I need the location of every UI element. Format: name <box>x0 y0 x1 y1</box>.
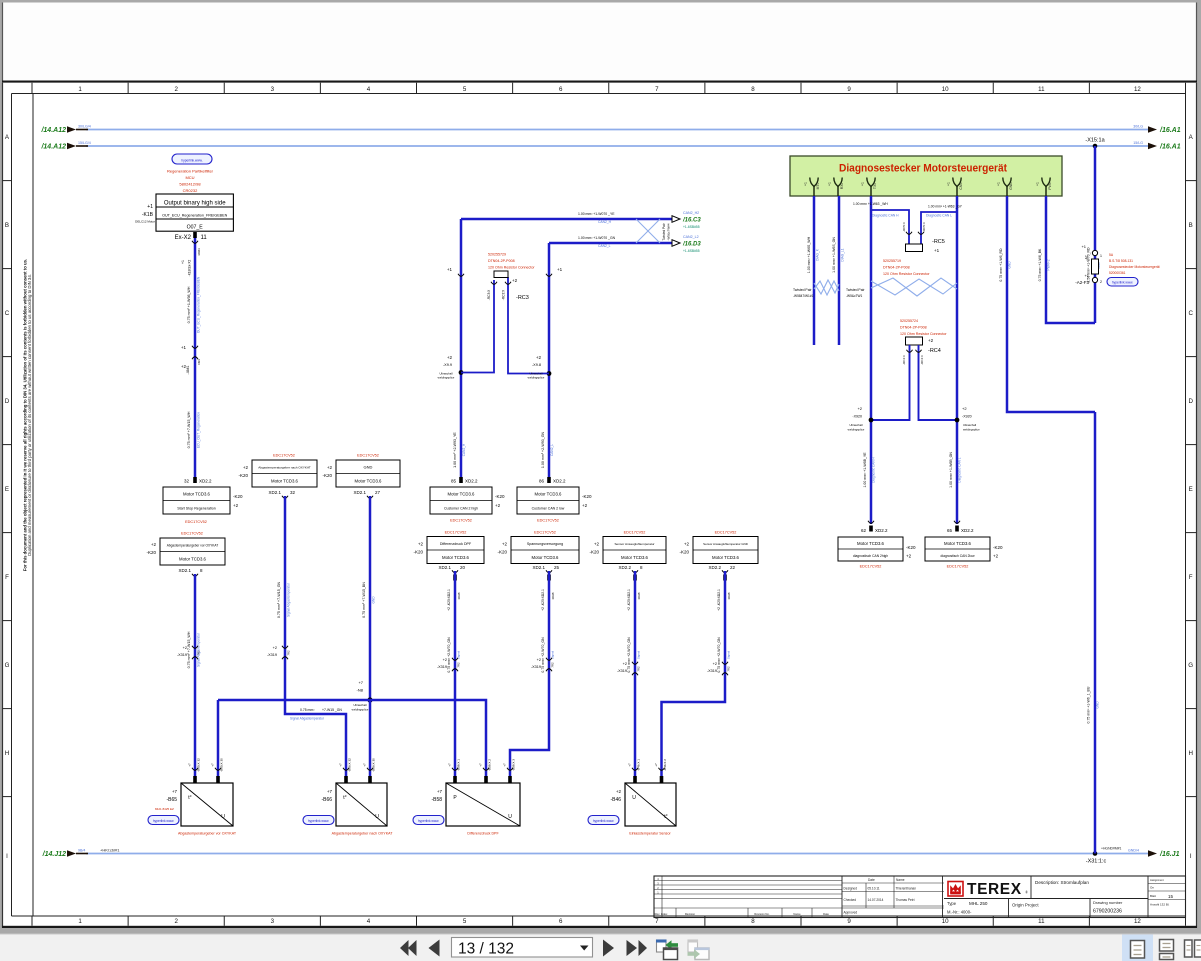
svg-text:+2: +2 <box>594 542 600 547</box>
svg-text:-B66:X 32: -B66:X 32 <box>348 758 352 772</box>
svg-text:-X9.9: -X9.9 <box>443 363 452 367</box>
svg-text:11: 11 <box>1038 86 1045 93</box>
svg-text:Drawing number: Drawing number <box>1093 900 1123 905</box>
svg-text:+1: +1 <box>181 260 185 264</box>
svg-text:hyperlink.www.: hyperlink.www. <box>181 158 202 162</box>
svg-text:-B58:X 1: -B58:X 1 <box>457 759 461 771</box>
svg-text:05.10.11: 05.10.11 <box>868 887 880 891</box>
svg-text:1.00 mm² +1-W63 _GY: 1.00 mm² +1-W63 _GY <box>928 205 963 209</box>
svg-text:Einlasstemperatur Sensor: Einlasstemperatur Sensor <box>629 832 671 836</box>
svg-text:DIAG_L1: DIAG_L1 <box>841 248 845 261</box>
svg-text:9: 9 <box>847 918 851 925</box>
svg-text:Duplication and measurement or: Duplication and measurement or disclosur… <box>27 274 32 556</box>
svg-text:+7: +7 <box>448 763 452 767</box>
svg-text:-XM1: -XM1 <box>186 365 190 374</box>
svg-text:15/LG: 15/LG <box>1133 141 1143 145</box>
svg-text:-X319: -X319 <box>617 669 627 673</box>
svg-text:5: 5 <box>463 86 467 93</box>
svg-text:+1: +1 <box>947 182 951 186</box>
svg-text:B: B <box>1189 222 1193 229</box>
svg-text:+7: +7 <box>479 763 483 767</box>
svg-text:CAN2_H2: CAN2_H2 <box>683 211 699 215</box>
svg-text:Motor TCD3.6: Motor TCD3.6 <box>442 555 470 560</box>
svg-text:-K20: -K20 <box>238 473 248 478</box>
svg-text:weldingsplice: weldingsplice <box>438 376 455 380</box>
svg-text:85: 85 <box>451 479 457 484</box>
svg-text:Name: Name <box>896 878 905 882</box>
svg-text:-X15:1a: -X15:1a <box>1085 138 1105 144</box>
svg-text:-K20: -K20 <box>679 550 689 555</box>
svg-text:-B46:X 2: -B46:X 2 <box>663 759 667 771</box>
svg-text:OUT_ECU_Regeneration_FREIGEBEN: OUT_ECU_Regeneration_FREIGEBEN <box>162 213 228 217</box>
svg-text:1.00 mm² +1-W6S_GN: 1.00 mm² +1-W6S_GN <box>832 237 836 273</box>
svg-text:+2 -K20:XD2.1: +2 -K20:XD2.1 <box>447 589 451 611</box>
svg-text:XD2.1: XD2.1 <box>438 565 451 570</box>
svg-text:t°: t° <box>188 795 191 801</box>
svg-text:-X319: -X319 <box>267 653 277 657</box>
svg-text:Customer CAN 2 low: Customer CAN 2 low <box>532 506 565 510</box>
svg-text:+7: +7 <box>211 763 215 767</box>
svg-text:DTN04-2P-P008: DTN04-2P-P008 <box>883 266 910 270</box>
svg-text:62: 62 <box>861 528 867 533</box>
svg-text:3R#B: 3R#B <box>457 592 461 599</box>
svg-text:MCU: MCU <box>185 175 194 180</box>
svg-text:Designed: Designed <box>844 887 858 891</box>
svg-text:I: I <box>6 853 8 860</box>
svg-text:Motor TCD3.6: Motor TCD3.6 <box>448 492 476 497</box>
svg-text:-B46: -B46 <box>610 797 621 803</box>
svg-text:C: C <box>1188 310 1193 317</box>
svg-text:Signal: Signal <box>551 650 555 659</box>
svg-text:7: 7 <box>655 86 659 93</box>
svg-text:Twisted Pair: Twisted Pair <box>846 288 865 292</box>
svg-text:Diagnostic CAN H: Diagnostic CAN H <box>872 456 876 482</box>
svg-text:+2: +2 <box>495 503 501 508</box>
svg-text:120 Ohm Resistor Connector: 120 Ohm Resistor Connector <box>900 332 947 336</box>
svg-text:-RC4: -RC4 <box>928 348 941 354</box>
svg-text:+1: +1 <box>1084 273 1089 278</box>
svg-text:Thierenthanan: Thierenthanan <box>896 887 917 891</box>
svg-text:32: 32 <box>184 479 190 484</box>
svg-text:+7: +7 <box>503 763 507 767</box>
svg-text:0.75 mm² +2-W70_GN: 0.75 mm² +2-W70_GN <box>717 637 721 673</box>
svg-text:Ex-X2: Ex-X2 <box>175 235 192 241</box>
svg-text:EDC17CV52: EDC17CV52 <box>273 454 295 458</box>
svg-text:-K1B: -K1B <box>142 212 154 218</box>
svg-text:EDC17CV52: EDC17CV52 <box>947 565 969 569</box>
svg-text:Diagnosestecker Motorsteuerger: Diagnosestecker Motorsteuergerät <box>1109 265 1160 269</box>
svg-text:D: D <box>1188 398 1193 405</box>
svg-text:weldingsplice: weldingsplice <box>963 428 980 432</box>
svg-text:EDC17CV52: EDC17CV52 <box>624 531 646 535</box>
svg-text:t°: t° <box>664 814 667 820</box>
svg-text:+1: +1 <box>557 267 563 272</box>
svg-text:10: 10 <box>942 918 949 925</box>
svg-text:XD2.2: XD2.2 <box>553 479 566 484</box>
svg-text:-X920: -X920 <box>852 415 862 419</box>
svg-text:0.75 mm² +7-W15_BN: 0.75 mm² +7-W15_BN <box>362 582 366 618</box>
svg-text:+7: +7 <box>339 763 343 767</box>
svg-text:+2: +2 <box>181 364 187 369</box>
svg-text:7R2: 7R2 <box>457 662 461 668</box>
svg-text:520255719: 520255719 <box>883 259 901 263</box>
svg-text:-K20: -K20 <box>993 545 1003 550</box>
svg-text:Ultraschall: Ultraschall <box>353 703 366 707</box>
svg-text:EDC17CV52: EDC17CV52 <box>860 565 882 569</box>
svg-text:O07_E: O07_E <box>187 224 204 230</box>
svg-text:120 Ohm Resistor Connector: 120 Ohm Resistor Connector <box>488 266 535 270</box>
svg-text:/16.C3: /16.C3 <box>682 218 701 224</box>
svg-text:Motor TCD3.6: Motor TCD3.6 <box>183 492 211 497</box>
svg-text:EDC17CV52: EDC17CV52 <box>715 531 737 535</box>
svg-text:+2: +2 <box>928 338 934 343</box>
svg-text:Regeneration Partikelfilter: Regeneration Partikelfilter <box>167 169 214 174</box>
svg-text:XD2.1: XD2.1 <box>532 565 545 570</box>
svg-text:-W5&cTW1: -W5&cTW1 <box>846 294 863 298</box>
svg-text:diagnostisch CAN 2low: diagnostisch CAN 2low <box>941 554 976 558</box>
svg-text:GND: GND <box>1009 182 1013 190</box>
svg-text:DELC12 Motor: DELC12 Motor <box>135 220 155 224</box>
svg-text:+2: +2 <box>418 542 424 547</box>
svg-text:-W5&cTW#4: -W5&cTW#4 <box>667 223 671 240</box>
svg-text:Signal: Signal <box>637 650 641 659</box>
svg-text:-X9.8: -X9.8 <box>532 363 541 367</box>
svg-text:diagnostisch CAN 2high: diagnostisch CAN 2high <box>853 554 888 558</box>
svg-text:Differenzdruck DPF: Differenzdruck DPF <box>440 542 472 546</box>
svg-text:/14.A12: /14.A12 <box>40 144 66 151</box>
svg-text:10: 10 <box>942 86 949 93</box>
svg-text:XM1: XM1 <box>197 359 201 366</box>
svg-text:Thomas Petri: Thomas Petri <box>896 898 915 902</box>
svg-text:-B65:X 30: -B65:X 30 <box>220 758 224 772</box>
svg-text:EDC17CV52: EDC17CV52 <box>537 519 559 523</box>
svg-text:Checked: Checked <box>844 898 857 902</box>
svg-text:+7-W15 _GN: +7-W15 _GN <box>322 708 342 712</box>
svg-text:Start Stop Regeneration: Start Stop Regeneration <box>177 506 216 510</box>
svg-text:Motor TCD3.6: Motor TCD3.6 <box>532 555 560 560</box>
svg-text:-RC5:X: -RC5:X <box>922 222 926 232</box>
svg-text:GND: GND <box>1096 701 1100 709</box>
svg-text:4: 4 <box>367 86 371 93</box>
svg-text:Revision: Revision <box>685 912 696 916</box>
svg-text:8: 8 <box>751 918 755 925</box>
svg-text:-X920: -X920 <box>962 415 972 419</box>
svg-text:MT0: MT0 <box>816 183 820 190</box>
svg-text:M.-Nr.: 4000-: M.-Nr.: 4000- <box>947 910 972 915</box>
svg-text:RX0: RX0 <box>840 183 844 190</box>
svg-text:XD2.2: XD2.2 <box>708 565 721 570</box>
svg-text:XD2.2: XD2.2 <box>875 528 888 533</box>
svg-text:-B58:X 2: -B58:X 2 <box>488 759 492 771</box>
svg-text:6: 6 <box>559 86 563 93</box>
svg-text:Name: Name <box>793 912 801 916</box>
svg-text:Type: Type <box>947 901 957 906</box>
svg-text:86: 86 <box>539 479 545 484</box>
svg-text:1.00 mm² +1-W6S_WH: 1.00 mm² +1-W6S_WH <box>807 236 811 273</box>
svg-text:-B58: -B58 <box>431 797 442 803</box>
svg-text:CAN2_H: CAN2_H <box>462 443 466 456</box>
svg-text:B.S.T/8 508-131: B.S.T/8 508-131 <box>1109 259 1133 263</box>
svg-text:/16.J1: /16.J1 <box>1159 851 1180 858</box>
svg-text:7: 7 <box>655 918 659 925</box>
svg-text:I: I <box>1190 853 1192 860</box>
svg-text:120 Ohm Resistor Connector: 120 Ohm Resistor Connector <box>883 272 930 276</box>
svg-text:XD2.1: XD2.1 <box>268 490 281 495</box>
svg-text:Diagnosestecker Motorsteuerger: Diagnosestecker Motorsteuergerät <box>839 163 1007 175</box>
svg-text:2: 2 <box>174 86 178 93</box>
svg-text:Motor TCD3.6: Motor TCD3.6 <box>621 555 649 560</box>
svg-text:Abgastemperaturgeber nach OXYK: Abgastemperaturgeber nach OXYKAT <box>258 466 311 470</box>
svg-text:520255729: 520255729 <box>488 253 506 257</box>
svg-text:8421 8425 EZ: 8421 8425 EZ <box>155 807 174 811</box>
svg-text:Sensor Ansauglufttemperatur GN: Sensor Ansauglufttemperatur GND <box>703 542 748 546</box>
svg-text:25: 25 <box>554 565 560 570</box>
svg-text:Anzahl 132 Bl.: Anzahl 132 Bl. <box>1150 903 1170 907</box>
svg-text:-B58:X 3: -B58:X 3 <box>512 759 516 771</box>
svg-text:9B/4: 9B/4 <box>78 849 85 853</box>
svg-text:Assignment: Assignment <box>1150 878 1164 882</box>
svg-text:-K20: -K20 <box>146 550 156 555</box>
svg-text:+2: +2 <box>183 646 187 650</box>
svg-text:Date: Date <box>868 878 875 882</box>
svg-text:Signal Abgastemperatur: Signal Abgastemperatur <box>287 582 291 617</box>
svg-text:27: 27 <box>375 490 381 495</box>
svg-text:XD2.2: XD2.2 <box>961 528 974 533</box>
svg-text:+1: +1 <box>1081 244 1086 249</box>
svg-text:/16.A1: /16.A1 <box>1159 127 1181 134</box>
svg-text:Motor TCD3.6: Motor TCD3.6 <box>535 492 563 497</box>
svg-text:+7: +7 <box>327 789 333 794</box>
svg-text:520255724: 520255724 <box>900 319 918 323</box>
svg-text:+2: +2 <box>512 278 518 283</box>
svg-text:+7: +7 <box>358 680 363 685</box>
svg-text:7R2: 7R2 <box>287 650 291 656</box>
svg-text:Ultraschall: Ultraschall <box>963 423 976 427</box>
svg-text:0.75 mm² +7-W15_WH: 0.75 mm² +7-W15_WH <box>187 411 191 448</box>
svg-text:Motor TCD3.6: Motor TCD3.6 <box>179 556 207 561</box>
svg-text:20: 20 <box>460 565 466 570</box>
svg-text:Revision No.: Revision No. <box>754 912 769 916</box>
svg-text:+2: +2 <box>151 542 157 547</box>
svg-text:EDC17CV52: EDC17CV52 <box>357 454 379 458</box>
svg-text:5802412/98: 5802412/98 <box>179 182 201 187</box>
svg-text:F: F <box>1189 574 1193 581</box>
svg-text:+2 -K20:XD2.1: +2 -K20:XD2.1 <box>541 589 545 611</box>
svg-text:hyperlink.www.: hyperlink.www. <box>153 819 174 823</box>
svg-text:Diagnostic CAN H: Diagnostic CAN H <box>872 214 899 218</box>
svg-text:MHL 250: MHL 250 <box>969 901 988 906</box>
svg-text:9: 9 <box>847 86 851 93</box>
svg-text:14.07.2014: 14.07.2014 <box>868 898 884 902</box>
svg-text:+1: +1 <box>804 182 808 186</box>
svg-text:+1: +1 <box>147 204 153 210</box>
svg-text:-RC4:X: -RC4:X <box>902 355 906 365</box>
svg-text:1.00 mm² +1-W6B_YE: 1.00 mm² +1-W6B_YE <box>863 452 867 488</box>
svg-text:+2: +2 <box>536 355 542 360</box>
svg-text:+2: +2 <box>327 465 333 470</box>
svg-text:0.75 mm² +2-W70_GN: 0.75 mm² +2-W70_GN <box>627 637 631 673</box>
svg-text:Abgastemperaturgeber nach OXYK: Abgastemperaturgeber nach OXYKAT <box>332 832 394 836</box>
svg-text:Diagnostic CAN L: Diagnostic CAN L <box>926 214 952 218</box>
svg-text:Ultraschall: Ultraschall <box>849 423 862 427</box>
svg-text:-RC3:X: -RC3:X <box>487 289 491 300</box>
svg-text:Origin Project: Origin Project <box>1012 903 1039 908</box>
svg-text:Abgastemperaturgeber vor OXYKA: Abgastemperaturgeber vor OXYKAT <box>167 544 219 548</box>
svg-text:-K20: -K20 <box>413 550 423 555</box>
svg-text:TEREX: TEREX <box>967 881 1022 898</box>
svg-text:Motor TCD3.6: Motor TCD3.6 <box>944 541 972 546</box>
svg-text:+1: +1 <box>997 182 1001 186</box>
svg-text:-K20: -K20 <box>906 545 916 550</box>
svg-text:Approved: Approved <box>844 911 858 915</box>
svg-text:Twisted Pair: Twisted Pair <box>662 222 666 240</box>
svg-text:EDC17CV52: EDC17CV52 <box>445 531 467 535</box>
svg-text:30/LG: 30/LG <box>1133 125 1143 129</box>
svg-text:Diagnostic CAN L: Diagnostic CAN L <box>958 457 962 482</box>
svg-text:G: G <box>5 662 10 669</box>
svg-text:1.00 mm² +2-W93_YE: 1.00 mm² +2-W93_YE <box>453 432 457 468</box>
svg-text:+2: +2 <box>233 503 239 508</box>
svg-text:-RC3:X: -RC3:X <box>502 289 506 300</box>
svg-text:1.00 mm² +1-W6B_GN: 1.00 mm² +1-W6B_GN <box>949 452 953 488</box>
svg-text:+1: +1 <box>1036 182 1040 186</box>
svg-text:XD2.2: XD2.2 <box>199 479 212 484</box>
svg-text:weldingsplice: weldingsplice <box>528 376 545 380</box>
svg-text:+7: +7 <box>188 763 192 767</box>
svg-text:15/LG/4: 15/LG/4 <box>78 141 91 145</box>
svg-text:GND/4: GND/4 <box>1128 849 1139 853</box>
svg-text:G: G <box>1188 662 1193 669</box>
svg-text:+1: +1 <box>861 182 865 186</box>
svg-text:7R2: 7R2 <box>551 662 555 668</box>
svg-text:1: 1 <box>78 86 82 93</box>
svg-text:Motor TCD3.6: Motor TCD3.6 <box>857 541 885 546</box>
svg-text:-A2: -A2 <box>1085 255 1089 260</box>
svg-text:Signal Abgastemperatur: Signal Abgastemperatur <box>197 632 201 667</box>
svg-text:5: 5 <box>463 918 467 925</box>
svg-text:7R2: 7R2 <box>727 666 731 672</box>
svg-text:EDC17CV52: EDC17CV52 <box>450 519 472 523</box>
svg-text:-B65:X 32: -B65:X 32 <box>197 758 201 772</box>
svg-text:-K20: -K20 <box>589 550 599 555</box>
svg-text:B: B <box>5 222 9 229</box>
svg-text:/16.A1: /16.A1 <box>1159 144 1181 151</box>
svg-text:22: 22 <box>730 565 736 570</box>
svg-text:2: 2 <box>174 918 178 925</box>
svg-text:hyperlink.www.: hyperlink.www. <box>418 819 439 823</box>
svg-text:U: U <box>375 814 379 820</box>
svg-text:OUT_ECU_Regeneration_FREIGEBEN: OUT_ECU_Regeneration_FREIGEBEN <box>197 276 201 333</box>
svg-text:+2: +2 <box>273 646 277 650</box>
svg-text:+2: +2 <box>906 554 912 559</box>
svg-text:+7: +7 <box>654 763 658 767</box>
svg-text:0.75 mm² +1-W6_1_BU: 0.75 mm² +1-W6_1_BU <box>1087 686 1091 723</box>
svg-text:XD2.1: XD2.1 <box>178 568 191 573</box>
svg-text:-B66: -B66 <box>321 797 332 803</box>
svg-text:CM0: CM0 <box>959 182 963 189</box>
svg-text:+2: +2 <box>447 355 453 360</box>
svg-text:Date: Date <box>823 912 829 916</box>
svg-text:-K20: -K20 <box>497 550 507 555</box>
svg-text:0.75 mm²: 0.75 mm² <box>300 708 315 712</box>
svg-text:Signal: Signal <box>457 650 461 659</box>
svg-text:+2: +2 <box>502 542 508 547</box>
svg-text:Description: Stromlaufplan: Description: Stromlaufplan <box>1035 880 1089 885</box>
svg-text:-X319: -X319 <box>177 653 187 657</box>
svg-text:+HGND#M#1: +HGND#M#1 <box>1101 847 1122 851</box>
svg-text:-K1B:Ex-X2: -K1B:Ex-X2 <box>188 259 192 276</box>
svg-text:3R#B: 3R#B <box>551 592 555 599</box>
svg-text:2: 2 <box>1100 280 1102 284</box>
svg-text:Output binary high side: Output binary high side <box>164 200 226 206</box>
svg-text:8: 8 <box>751 86 755 93</box>
svg-text:-A2-F3: -A2-F3 <box>1075 280 1089 285</box>
svg-text:520000361: 520000361 <box>1109 271 1126 275</box>
svg-text:t°: t° <box>343 795 346 801</box>
svg-text:+2: +2 <box>962 406 967 411</box>
svg-text:+1-6SB#55: +1-6SB#55 <box>683 249 700 253</box>
svg-text:TX0: TX0 <box>873 183 877 189</box>
svg-text:weldingsplice: weldingsplice <box>848 428 865 432</box>
svg-text:Rev. Index: Rev. Index <box>655 912 668 916</box>
svg-text:7R2: 7R2 <box>197 650 201 656</box>
svg-text:15: 15 <box>1168 894 1174 899</box>
svg-text:DIAG_K: DIAG_K <box>816 248 820 261</box>
svg-text:GND: GND <box>364 465 373 470</box>
svg-text:/14.J12: /14.J12 <box>42 851 66 858</box>
svg-text:Sensor Ansauglufttemperatur: Sensor Ansauglufttemperatur <box>614 542 654 546</box>
svg-text:30/LG/4: 30/LG/4 <box>78 125 91 129</box>
svg-text:7R2: 7R2 <box>637 666 641 672</box>
svg-text:-X319: -X319 <box>531 665 541 669</box>
svg-text:-X319: -X319 <box>437 665 447 669</box>
svg-text:13 / 132: 13 / 132 <box>458 941 514 958</box>
svg-text:H: H <box>1188 750 1192 757</box>
svg-text:PWR+2: PWR+2 <box>1047 259 1051 270</box>
svg-text:12: 12 <box>1134 918 1141 925</box>
svg-text:3: 3 <box>271 918 275 925</box>
svg-text:EDC17CV52: EDC17CV52 <box>534 531 556 535</box>
svg-text:+2: +2 <box>993 554 999 559</box>
svg-text:+2: +2 <box>616 789 622 794</box>
svg-text:Spannungsversorgung: Spannungsversorgung <box>527 542 563 546</box>
svg-text:CAN2_L: CAN2_L <box>550 444 554 456</box>
svg-text:Blatt: Blatt <box>1150 894 1156 898</box>
svg-text:4: 4 <box>367 918 371 925</box>
svg-text:-K20: -K20 <box>322 473 332 478</box>
svg-text:E: E <box>1189 486 1193 493</box>
svg-text:hyperlink.www.: hyperlink.www. <box>308 819 329 823</box>
svg-text:12: 12 <box>1134 86 1141 93</box>
svg-text:+1: +1 <box>181 345 187 350</box>
svg-text:0.75 mm² +1-W6_BK: 0.75 mm² +1-W6_BK <box>1038 248 1042 281</box>
svg-text:6790200236: 6790200236 <box>1093 909 1122 915</box>
svg-text:+7: +7 <box>363 763 367 767</box>
svg-text:-K20: -K20 <box>233 494 243 499</box>
svg-text:+HKl:cbl#1: +HKl:cbl#1 <box>100 848 120 853</box>
svg-text:1.00 mm² +1-W070 _GN: 1.00 mm² +1-W070 _GN <box>578 236 616 240</box>
svg-text:+2: +2 <box>243 465 249 470</box>
svg-text:1.00 mm² +2-W93_GN: 1.00 mm² +2-W93_GN <box>541 431 545 468</box>
svg-text:6: 6 <box>559 918 563 925</box>
svg-text:-RC5: -RC5 <box>932 239 945 245</box>
svg-text:XD2.1: XD2.1 <box>353 490 366 495</box>
svg-text:1: 1 <box>1100 254 1102 258</box>
svg-text:+2 -K20:XD2.1: +2 -K20:XD2.1 <box>717 589 721 611</box>
svg-text:GND: GND <box>372 596 376 604</box>
svg-text:C: C <box>5 310 10 317</box>
svg-text:CAN2_L: CAN2_L <box>598 244 611 248</box>
